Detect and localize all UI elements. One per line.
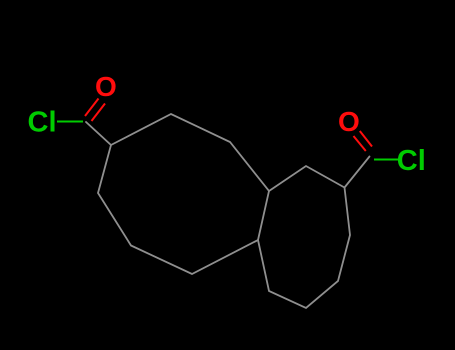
svg-text:Cl: Cl [28,107,57,139]
svg-text:O: O [338,106,360,137]
svg-text:Cl: Cl [397,145,426,177]
svg-text:O: O [95,71,117,102]
